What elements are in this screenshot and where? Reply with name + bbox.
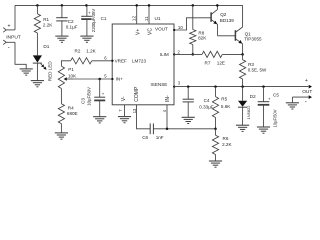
svg-text:OUT: OUT: [302, 89, 312, 95]
wire: input- to ground: [15, 42, 26, 69]
pin 4 IN- drop: [162, 105, 168, 130]
svg-text:IN+: IN+: [116, 76, 124, 81]
svg-text:V-: V-: [121, 96, 127, 101]
diode D1 (red LED): [33, 55, 42, 63]
wire: top V+ rail: [15, 4, 243, 6]
diode D2 1N5822: [238, 101, 247, 108]
wire: C4 drop: [187, 87, 189, 100]
capacitor C2: [56, 18, 67, 21]
resistor R1: [34, 14, 40, 33]
svg-text:0.1µF: 0.1µF: [66, 25, 78, 30]
wire: R5 to node: [215, 118, 217, 129]
label VREF: [115, 59, 127, 64]
wire: rail to R8: [192, 5, 194, 29]
label D1: [43, 44, 49, 49]
pin 7 V- stub: [118, 105, 125, 117]
svg-text:10K: 10K: [68, 74, 77, 79]
node: Q1 emitter junction: [241, 53, 244, 56]
wire: input+ up to rail: [14, 5, 16, 30]
wire: C6 to R5/R6 node: [153, 128, 215, 130]
label R4 680E: [67, 105, 78, 116]
wire: rail to R5: [215, 87, 217, 97]
node: rail/R1 junction: [36, 4, 39, 7]
svg-text:Q2: Q2: [220, 12, 227, 17]
svg-text:V+: V+: [135, 29, 141, 35]
node: C4 tap: [187, 85, 190, 88]
label C2 0.1uF: [66, 19, 78, 30]
svg-text:1nF: 1nF: [156, 135, 164, 140]
svg-text:12: 12: [132, 16, 138, 22]
wire: rail to R1: [36, 5, 38, 13]
wire: R4 to ground: [60, 124, 62, 133]
node: C3 tap: [98, 78, 101, 81]
node: rail/C1 junction: [85, 4, 88, 7]
input terminal +: [3, 24, 15, 33]
label R8 82K: [198, 31, 207, 41]
resistor R8: [190, 30, 196, 45]
ground (D1): [31, 81, 44, 87]
svg-text:C2: C2: [68, 19, 74, 24]
ground (C1): [80, 36, 93, 42]
label C6 1nF: [142, 135, 164, 140]
svg-text:D2: D2: [250, 94, 256, 99]
ground (R6): [209, 161, 222, 167]
svg-text:12E: 12E: [217, 60, 225, 65]
capacitor C3 (electrolytic): [94, 91, 105, 100]
label R1 2.2K: [43, 17, 53, 27]
wire: VREF to R2: [92, 60, 114, 62]
P1 wiper arrow: [64, 77, 73, 81]
label RED LED: [47, 61, 52, 82]
ground (D2): [236, 125, 249, 131]
svg-text:-: -: [305, 99, 307, 105]
ground (C4): [182, 117, 195, 123]
svg-text:C3: C3: [81, 98, 86, 104]
wire: R8 to pin2 node: [192, 45, 195, 56]
capacitor C6: [150, 123, 153, 134]
svg-text:P1: P1: [68, 67, 74, 72]
resistor R4: [58, 104, 64, 124]
svg-text:D1: D1: [43, 44, 49, 49]
svg-text:10µF/50V: 10µF/50V: [273, 109, 278, 127]
label Q1 TIP3055: [244, 31, 262, 41]
svg-text:13: 13: [132, 108, 137, 113]
svg-text:+: +: [102, 91, 105, 96]
svg-text:5.6K: 5.6K: [221, 104, 231, 109]
svg-text:2: 2: [178, 49, 181, 54]
wire: R1 to D1: [36, 33, 38, 55]
label U1: [155, 16, 161, 21]
label R2 1.2K: [75, 48, 97, 53]
svg-text:82K: 82K: [198, 35, 207, 40]
resistor R3: [240, 54, 246, 86]
label P1 10K: [68, 67, 77, 78]
capacitor C5 (electrolytic): [258, 96, 271, 105]
svg-text:INPUT: INPUT: [6, 34, 21, 40]
svg-text:+: +: [305, 78, 308, 84]
label Q2 BD139: [220, 12, 234, 23]
label OUT: [302, 89, 312, 95]
label R3 0.5E 5W: [248, 62, 267, 73]
label R7 12E: [205, 60, 225, 65]
svg-text:0.5E, 5W: 0.5E, 5W: [248, 68, 267, 73]
svg-text:LM723: LM723: [132, 59, 146, 64]
label C5: [273, 92, 279, 97]
wire: D2 drop: [242, 87, 244, 101]
ground (pin 7): [118, 117, 131, 123]
wire: C2 to ground: [61, 21, 63, 36]
output terminal +: [305, 78, 312, 89]
wire: C4 to ground: [187, 102, 189, 117]
label C4 0.33uF: [199, 98, 214, 109]
svg-text:10µF/50V: 10µF/50V: [87, 87, 92, 106]
ground (OUT -): [286, 103, 299, 109]
svg-text:C6: C6: [142, 135, 148, 140]
svg-text:VREF: VREF: [115, 59, 127, 64]
label 2200uF/35V: [91, 9, 96, 33]
svg-text:TIP3055: TIP3055: [244, 36, 262, 41]
LED arrows: [41, 64, 47, 70]
label D2: [250, 94, 256, 99]
label 10uF/50V (C5): [273, 109, 278, 127]
svg-text:0.33µF: 0.33µF: [199, 104, 214, 109]
wire: ISENSE output rail: [174, 86, 308, 88]
svg-text:R7: R7: [205, 60, 211, 65]
resistor R5: [212, 97, 218, 118]
pin 2 label: [173, 49, 180, 55]
svg-text:IN-: IN-: [165, 95, 171, 102]
node: rail/Q2 collector: [216, 4, 219, 7]
svg-text:2.2K: 2.2K: [222, 142, 232, 147]
svg-text:ISENSE: ISENSE: [151, 82, 168, 87]
label IN+: [116, 76, 124, 81]
wire: C5 drop: [263, 87, 265, 102]
svg-text:7: 7: [118, 109, 123, 112]
svg-text:10: 10: [178, 25, 183, 30]
node: R5/R6/C6 junction: [214, 128, 217, 131]
wire: C3 to ground: [99, 100, 101, 116]
label C1: [101, 16, 107, 21]
svg-text:ILIM: ILIM: [160, 52, 169, 57]
input terminal -: [3, 40, 15, 51]
ground (C5): [257, 127, 270, 133]
wire: D2 to ground: [242, 107, 244, 125]
output terminal -: [292, 95, 312, 105]
label VOUT: [155, 27, 168, 32]
transistor Q2 BD139: [211, 5, 217, 35]
node: rail/C2 junction: [61, 4, 64, 7]
svg-text:11: 11: [144, 16, 150, 21]
resistor R6: [212, 129, 218, 161]
ground (input -): [20, 69, 33, 75]
label ILIM: [160, 52, 169, 57]
node: rail/R8 junction: [192, 4, 195, 7]
label R5 5.6K: [221, 97, 231, 109]
pin 10 VOUT wire: [173, 18, 211, 31]
svg-text:680E: 680E: [67, 111, 78, 116]
svg-text:U1: U1: [155, 16, 161, 21]
svg-text:6: 6: [104, 56, 107, 61]
wire: D1 to ground: [36, 63, 38, 81]
svg-text:4: 4: [162, 109, 167, 112]
ground (C2): [55, 36, 68, 42]
wire: R7 to Q1 emitter node: [222, 53, 242, 55]
resistor R2: [71, 58, 92, 64]
svg-text:C5: C5: [273, 92, 279, 97]
wire: rail to C2: [61, 5, 63, 17]
label LM723: [132, 59, 146, 64]
svg-text:1.2K: 1.2K: [86, 48, 96, 53]
capacitor C4: [183, 99, 194, 102]
wire: R2 to P1 top: [61, 61, 70, 66]
transistor Q1 TIP3055: [235, 5, 242, 54]
node: C5 tap: [262, 85, 265, 88]
wire: C3 drop: [99, 79, 101, 97]
op-amp U1 LM723 body: [112, 24, 174, 105]
svg-text:RED LED: RED LED: [47, 61, 52, 82]
wire: C5 to ground: [263, 105, 265, 127]
svg-text:5: 5: [104, 74, 107, 79]
svg-text:VOUT: VOUT: [155, 27, 168, 32]
svg-text:R5: R5: [221, 97, 227, 102]
svg-text:R6: R6: [223, 136, 229, 141]
svg-text:+: +: [268, 96, 271, 101]
svg-text:+: +: [8, 24, 11, 30]
pin 5 label: [104, 74, 107, 79]
wire: ILIM to R7: [174, 53, 202, 55]
pin 3 label: [173, 81, 181, 88]
label ISENSE: [151, 82, 168, 87]
potentiometer P1: [58, 66, 64, 88]
wire: out- to ground: [291, 97, 293, 103]
label 10uF/50V (C3): [87, 87, 92, 106]
svg-text:BD139: BD139: [220, 18, 234, 23]
svg-text:COMP: COMP: [134, 86, 140, 102]
svg-text:R4: R4: [68, 105, 74, 110]
ground (R4): [55, 133, 68, 139]
svg-text:R2: R2: [75, 48, 81, 53]
pin 12 V+: [132, 4, 142, 35]
wire: P1 to R4: [60, 89, 62, 104]
pin 11 VC: [144, 4, 154, 35]
wire: C1 to ground: [86, 19, 88, 36]
ground (C3): [93, 117, 106, 123]
capacitor C1 (electrolytic): [81, 11, 91, 20]
svg-text:R3: R3: [248, 62, 254, 67]
wire: rail to C1: [86, 5, 88, 16]
label R6 2.2K: [222, 136, 232, 147]
svg-text:-: -: [8, 45, 10, 51]
pin 6 label: [104, 56, 107, 61]
node: D2 tap: [241, 85, 244, 88]
wire: wiper to IN+: [73, 78, 114, 80]
svg-text:2.2K: 2.2K: [43, 22, 53, 27]
svg-text:C1: C1: [101, 16, 107, 21]
svg-text:C4: C4: [204, 98, 210, 103]
svg-text:VC: VC: [148, 28, 154, 35]
resistor R7: [202, 51, 222, 57]
svg-text:1N5822: 1N5822: [246, 105, 251, 120]
label INPUT: [6, 34, 21, 40]
svg-text:2200µF/35V: 2200µF/35V: [91, 9, 96, 33]
label C3: [81, 98, 86, 104]
pin 13 COMP wire: [132, 105, 150, 129]
labels V- COMP IN-: [121, 86, 171, 102]
label 1N5822: [246, 105, 251, 120]
svg-text:3: 3: [178, 81, 181, 86]
wire: Q2 emitter to Q1 base: [218, 35, 236, 37]
node: R5 tap: [214, 85, 217, 88]
